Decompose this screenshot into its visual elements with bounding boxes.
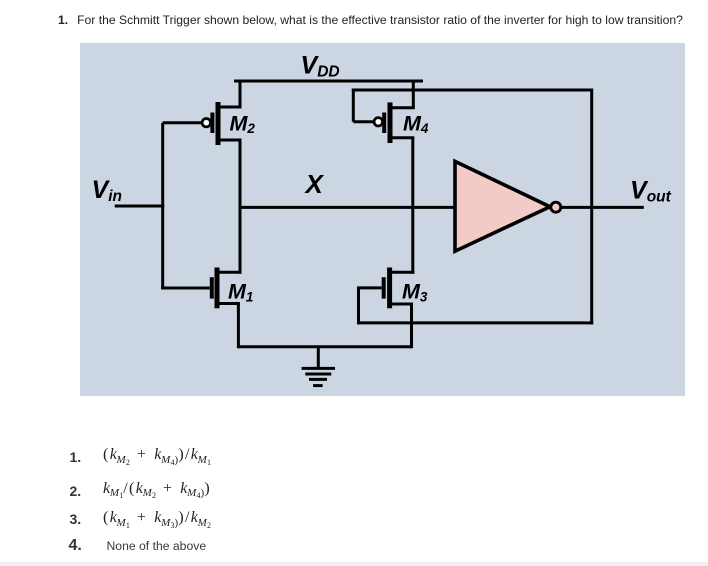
M3 channel bar xyxy=(387,268,392,309)
wire M4 gate loop vertical xyxy=(352,89,355,122)
wire M1 gate from input bus xyxy=(161,287,210,290)
bottom gray strip xyxy=(0,562,708,566)
transistor M2 (PMOS) xyxy=(163,81,256,274)
inverter output bubble xyxy=(551,202,561,212)
wire M3 source vertical to ground rail xyxy=(410,304,413,348)
wire inverter output to Vout xyxy=(561,206,644,209)
ground bar 1 xyxy=(302,367,335,370)
ground symbol xyxy=(302,347,335,386)
M4 channel bar xyxy=(388,102,393,143)
ground bar 2 xyxy=(305,373,331,376)
wire M3 gate stub xyxy=(357,286,382,289)
transistor M4 (PMOS) xyxy=(352,81,592,274)
option 2 math xyxy=(103,480,211,498)
ground bar 3 xyxy=(309,378,327,381)
node X label xyxy=(304,169,325,199)
question text xyxy=(58,13,708,27)
svg-text:Vout: Vout xyxy=(630,177,672,206)
option 3 math xyxy=(103,509,211,527)
wire input gate bus vertical xyxy=(161,123,164,290)
inverter triangle xyxy=(455,161,550,251)
wire M2 source horizontal xyxy=(217,106,242,109)
option 1 number xyxy=(70,449,82,465)
wire M2 drain horizontal xyxy=(217,139,242,142)
svg-text:X: X xyxy=(304,169,325,199)
M2 gate bar xyxy=(210,113,214,134)
M3 label xyxy=(402,280,428,305)
wire M3 gate loop vertical xyxy=(357,288,360,325)
wire ground rail xyxy=(238,345,411,348)
svg-text:VDD: VDD xyxy=(301,52,340,81)
M1 label xyxy=(228,280,253,305)
wire M4 gate stub xyxy=(353,120,374,123)
option 2 number xyxy=(70,483,82,499)
M2 channel bar xyxy=(216,102,221,145)
node Vin label xyxy=(92,176,122,205)
schematic panel background xyxy=(80,43,685,396)
wire M1 drain horizontal xyxy=(216,271,242,274)
option 4 text xyxy=(107,539,207,553)
M1 channel bar xyxy=(215,268,220,309)
node VDD label xyxy=(301,52,340,81)
wire M2 gate to input bus xyxy=(163,121,202,124)
wire M2 source vertical to VDD xyxy=(239,81,242,107)
wire node X horizontal xyxy=(240,206,456,209)
wire M1 source vertical to ground rail xyxy=(237,304,240,349)
wire M1 source horizontal xyxy=(216,302,240,305)
wire M4 source vertical to VDD xyxy=(412,81,415,108)
wire M3 gate feedback horizontal xyxy=(357,321,593,324)
M1 gate bar xyxy=(210,277,214,298)
M2 gate bubble xyxy=(202,119,210,127)
node Vout label xyxy=(630,177,672,206)
M4 gate bubble xyxy=(374,118,382,126)
wire M2 drain to node X and M1 drain xyxy=(239,140,242,274)
wire M4 source horizontal xyxy=(389,106,415,109)
wire M3 source horizontal xyxy=(388,303,413,306)
option 4 number xyxy=(69,537,82,555)
ground stub xyxy=(317,347,320,369)
wire M3 drain horizontal xyxy=(388,271,414,274)
M4 label xyxy=(403,111,429,136)
wire VDD rail xyxy=(234,80,423,83)
wire feedback top horizontal to Vout xyxy=(352,89,592,92)
M3 gate bar xyxy=(382,277,386,298)
wire Vin input xyxy=(115,205,165,208)
option 3 number xyxy=(70,511,82,527)
svg-text:Vin: Vin xyxy=(92,176,122,205)
svg-text:M4: M4 xyxy=(403,111,429,136)
ground bar 4 xyxy=(313,384,323,387)
M2 label xyxy=(230,111,256,136)
transistor M1 (NMOS) xyxy=(161,268,253,349)
svg-text:M1: M1 xyxy=(228,280,253,305)
op-amp inverter U1 xyxy=(455,161,644,251)
transistor M3 (NMOS) xyxy=(357,268,593,349)
wire M4 drain horizontal xyxy=(389,136,415,139)
svg-text:M3: M3 xyxy=(402,280,428,305)
wire feedback vertical from Vout node xyxy=(590,89,593,325)
M4 gate bar xyxy=(382,113,386,134)
svg-text:M2: M2 xyxy=(230,111,256,136)
option 1 math xyxy=(103,446,211,464)
wire M4 drain to node X and M3 drain xyxy=(411,138,414,274)
